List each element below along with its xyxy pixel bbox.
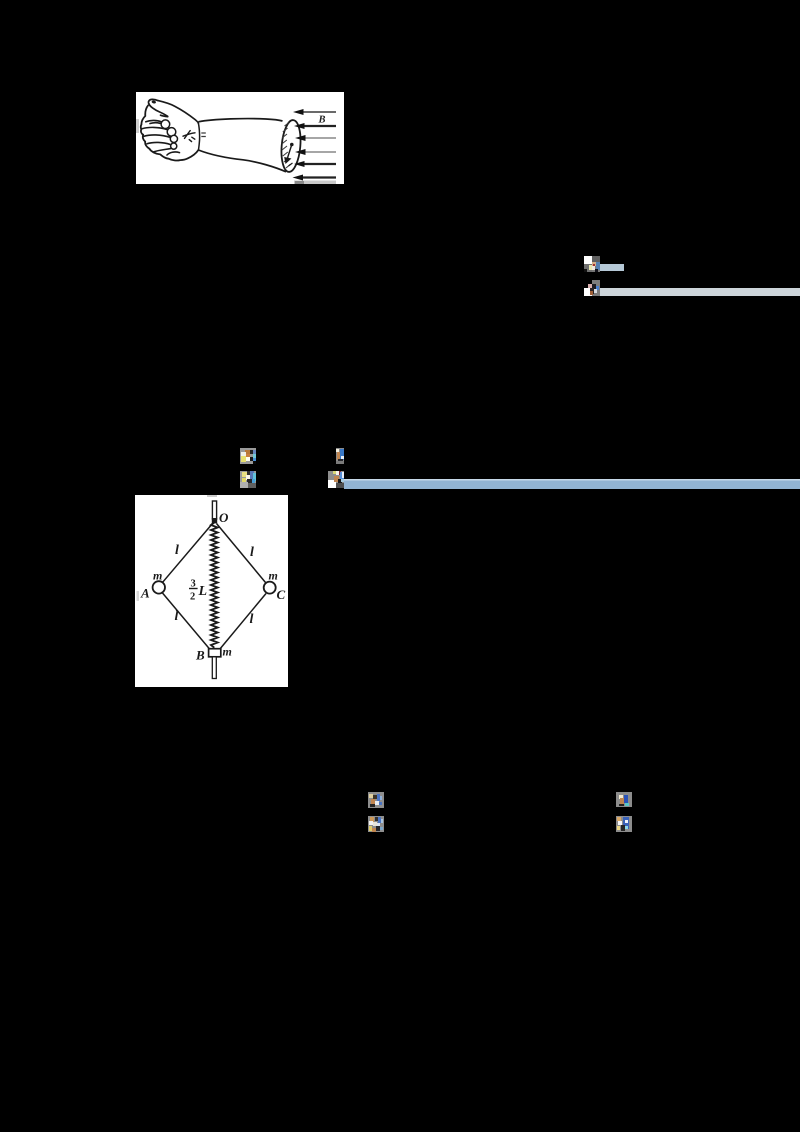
icon pair bottom-right (numerator) bbox=[616, 792, 632, 807]
figure 1: arm with magnetic field B bbox=[136, 92, 344, 184]
figure 2: spring rhombus OABC bbox=[135, 495, 288, 687]
fist: left and bottom outline bbox=[141, 106, 199, 161]
slider B bbox=[209, 649, 221, 657]
svg-text:m: m bbox=[223, 645, 232, 659]
svg-text:L: L bbox=[198, 584, 208, 599]
labels bbox=[140, 543, 286, 663]
icon pair bottom-left (denominator) bbox=[368, 816, 384, 832]
wrist = marks bbox=[201, 133, 206, 137]
arm bottom contour bbox=[198, 150, 286, 172]
top rod bbox=[212, 501, 216, 519]
highlight bar 2 bbox=[600, 288, 800, 296]
fist: thumb bbox=[148, 99, 198, 123]
fraction icon 1 (right numerator) bbox=[336, 448, 344, 464]
wrist crease x bbox=[183, 131, 195, 142]
equation icon row 1 bbox=[584, 256, 600, 272]
wrist boundary line bbox=[198, 123, 199, 150]
svg-text:l: l bbox=[175, 543, 179, 558]
arm cross-section ellipse bbox=[279, 119, 302, 172]
svg-text:l: l bbox=[250, 612, 254, 627]
bottom gray strip bbox=[294, 181, 336, 185]
highlight bar 1 bbox=[600, 264, 624, 271]
svg-text:l: l bbox=[250, 545, 254, 560]
spring bbox=[211, 523, 218, 648]
fraction icon 2 (left denominator) bbox=[240, 471, 256, 488]
svg-text:m: m bbox=[269, 569, 278, 583]
svg-text:A: A bbox=[140, 586, 150, 601]
fraction icon 2 (right denominator) bbox=[328, 471, 344, 488]
strings bbox=[163, 524, 267, 650]
equation icon row 2 bbox=[584, 280, 600, 296]
svg-text:m: m bbox=[153, 569, 162, 583]
icon pair bottom-right (denominator) bbox=[616, 816, 632, 832]
fist: knuckle circles bbox=[161, 120, 177, 149]
fraction icon 3 (left numerator) bbox=[240, 448, 256, 464]
field arrows bbox=[293, 109, 337, 181]
fist: finger lines bbox=[142, 120, 180, 155]
ellipse hatching bbox=[282, 123, 291, 169]
current arrow inside ellipse bbox=[285, 143, 293, 166]
svg-text:2: 2 bbox=[190, 592, 195, 603]
svg-text:B: B bbox=[318, 115, 326, 126]
O junction bbox=[212, 518, 217, 523]
gray nub above rod bbox=[207, 495, 217, 497]
fraction bar bbox=[189, 588, 198, 589]
bottom rod bbox=[212, 657, 216, 679]
svg-text:C: C bbox=[277, 587, 286, 602]
gray tick left edge bbox=[137, 591, 140, 601]
svg-text:O: O bbox=[219, 510, 229, 525]
highlight bar 3 bbox=[344, 479, 800, 489]
svg-text:B: B bbox=[195, 648, 205, 663]
icon pair bottom-left (numerator) bbox=[368, 792, 384, 808]
ball C bbox=[264, 582, 276, 594]
svg-text:l: l bbox=[175, 609, 179, 624]
ball A bbox=[153, 581, 165, 593]
arm top contour bbox=[198, 119, 282, 122]
gray tick left edge bbox=[136, 119, 139, 133]
